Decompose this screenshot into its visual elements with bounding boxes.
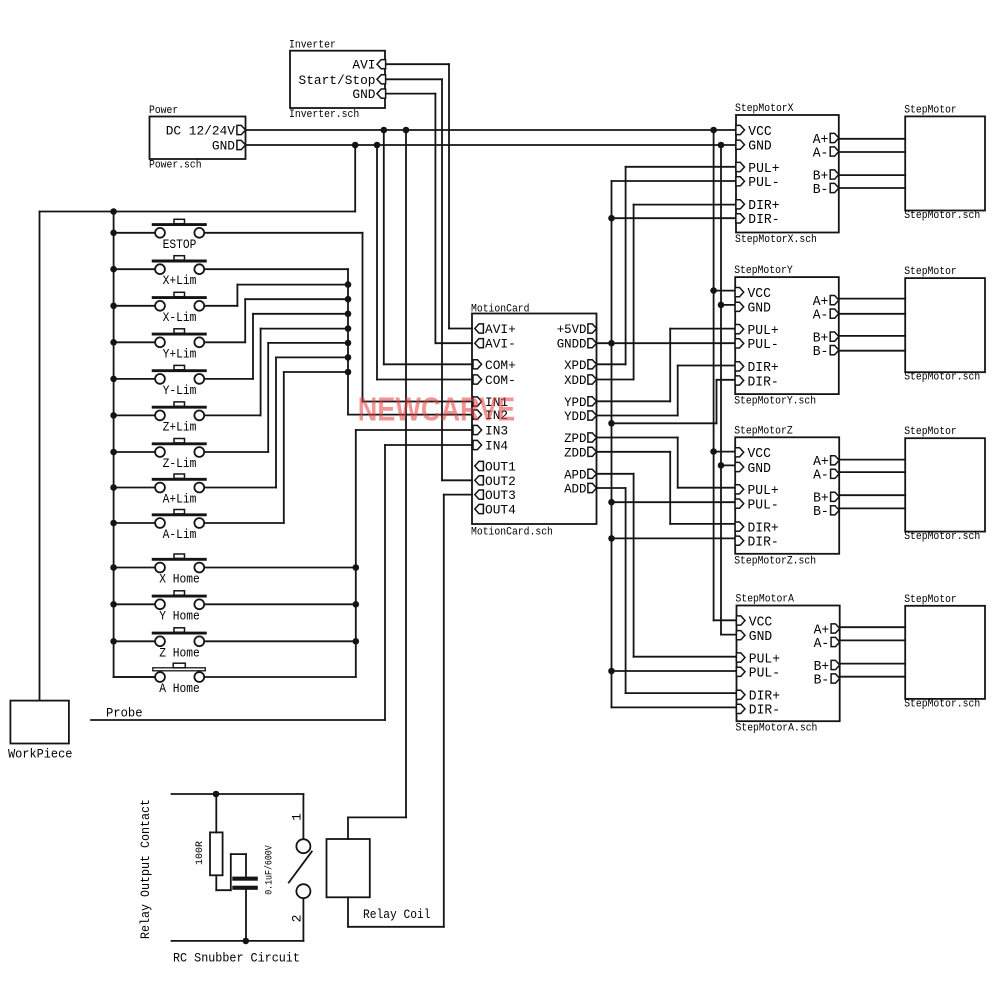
svg-text:GND: GND — [749, 630, 772, 645]
svg-text:OUT1: OUT1 — [485, 460, 516, 475]
svg-text:Z-Lim: Z-Lim — [163, 457, 197, 471]
svg-text:A-Lim: A-Lim — [163, 528, 197, 542]
svg-text:A-: A- — [813, 146, 829, 161]
svg-text:VCC: VCC — [748, 287, 771, 302]
svg-text:StepMotor.sch: StepMotor.sch — [904, 372, 980, 384]
svg-text:A+Lim: A+Lim — [163, 493, 197, 507]
svg-text:Relay Output Contact: Relay Output Contact — [139, 799, 153, 939]
svg-text:Y Home: Y Home — [159, 609, 200, 623]
svg-text:IN4: IN4 — [485, 439, 508, 454]
svg-text:100R: 100R — [195, 841, 206, 865]
svg-text:StepMotor: StepMotor — [904, 594, 957, 606]
svg-text:PUL-: PUL- — [748, 498, 779, 513]
svg-text:ADD: ADD — [564, 482, 587, 497]
svg-text:DIR+: DIR+ — [748, 361, 779, 376]
svg-text:StepMotor: StepMotor — [904, 266, 957, 278]
svg-text:VCC: VCC — [748, 125, 771, 140]
svg-text:PUL+: PUL+ — [748, 484, 779, 499]
svg-text:COM-: COM- — [485, 373, 516, 388]
svg-text:1: 1 — [290, 813, 305, 821]
svg-text:Y-Lim: Y-Lim — [163, 384, 197, 398]
svg-text:Relay Coil: Relay Coil — [363, 907, 431, 922]
svg-text:GND: GND — [748, 302, 771, 317]
svg-text:DIR+: DIR+ — [749, 690, 780, 705]
svg-text:ZDD: ZDD — [564, 445, 587, 460]
svg-text:GNDD: GNDD — [557, 337, 587, 352]
svg-text:OUT2: OUT2 — [485, 474, 516, 489]
svg-text:A-: A- — [814, 637, 830, 652]
svg-text:StepMotorY.sch: StepMotorY.sch — [734, 396, 816, 408]
svg-text:B-: B- — [813, 505, 829, 520]
svg-text:PUL+: PUL+ — [748, 324, 779, 339]
svg-text:YDD: YDD — [564, 409, 587, 424]
svg-text:ESTOP: ESTOP — [163, 238, 197, 252]
svg-text:Z+Lim: Z+Lim — [163, 420, 197, 434]
svg-text:X Home: X Home — [159, 573, 200, 587]
svg-text:XPD: XPD — [564, 358, 587, 373]
svg-text:StepMotor: StepMotor — [904, 104, 957, 116]
svg-text:RC Snubber Circuit: RC Snubber Circuit — [173, 951, 300, 966]
svg-text:2: 2 — [290, 915, 305, 923]
svg-text:StepMotor.sch: StepMotor.sch — [904, 210, 980, 222]
svg-text:GND: GND — [748, 140, 771, 155]
svg-text:Power.sch: Power.sch — [149, 160, 202, 172]
svg-text:DIR+: DIR+ — [748, 521, 779, 536]
svg-text:COM+: COM+ — [485, 358, 516, 373]
svg-text:Start/Stop: Start/Stop — [299, 73, 376, 88]
svg-text:StepMotorY: StepMotorY — [734, 265, 793, 277]
svg-text:VCC: VCC — [748, 447, 771, 462]
svg-text:A-: A- — [813, 469, 829, 484]
svg-text:DIR-: DIR- — [749, 704, 780, 719]
svg-text:StepMotorX: StepMotorX — [735, 103, 794, 115]
svg-text:Z Home: Z Home — [159, 646, 200, 660]
svg-text:StepMotorZ: StepMotorZ — [734, 425, 793, 437]
svg-text:GND: GND — [352, 87, 375, 102]
svg-text:ZPD: ZPD — [564, 431, 587, 446]
svg-text:WorkPiece: WorkPiece — [8, 747, 72, 762]
svg-text:GND: GND — [748, 462, 771, 477]
svg-text:StepMotor: StepMotor — [904, 426, 957, 438]
svg-text:PUL+: PUL+ — [749, 652, 780, 667]
svg-text:DC 12/24V: DC 12/24V — [166, 124, 235, 139]
svg-text:VCC: VCC — [749, 615, 772, 630]
svg-text:A Home: A Home — [159, 682, 200, 696]
svg-text:StepMotor.sch: StepMotor.sch — [904, 698, 980, 710]
svg-text:StepMotor.sch: StepMotor.sch — [904, 531, 980, 543]
svg-text:DIR-: DIR- — [748, 375, 779, 390]
svg-text:MotionCard.sch: MotionCard.sch — [471, 527, 553, 539]
svg-text:DIR-: DIR- — [748, 213, 779, 228]
svg-text:B-: B- — [813, 183, 829, 198]
svg-text:NEWCARVE: NEWCARVE — [358, 391, 516, 428]
svg-text:Power: Power — [149, 105, 178, 117]
svg-text:AVI-: AVI- — [485, 337, 516, 352]
svg-text:AVI+: AVI+ — [485, 322, 516, 337]
svg-text:Y+Lim: Y+Lim — [163, 347, 197, 361]
svg-text:DIR-: DIR- — [748, 536, 779, 551]
svg-text:StepMotorX.sch: StepMotorX.sch — [735, 234, 817, 246]
svg-text:PUL-: PUL- — [748, 338, 779, 353]
svg-text:StepMotorA.sch: StepMotorA.sch — [736, 723, 818, 735]
svg-text:YPD: YPD — [564, 395, 587, 410]
svg-text:X+Lim: X+Lim — [163, 274, 197, 288]
svg-text:Probe: Probe — [106, 706, 143, 721]
svg-text:0.1uF/600V: 0.1uF/600V — [264, 845, 276, 895]
svg-text:AVI: AVI — [352, 58, 375, 73]
svg-text:OUT3: OUT3 — [485, 488, 516, 503]
svg-text:+5VD: +5VD — [557, 322, 587, 337]
svg-text:StepMotorA: StepMotorA — [736, 594, 795, 606]
svg-text:MotionCard: MotionCard — [471, 304, 530, 316]
svg-text:PUL-: PUL- — [748, 176, 779, 191]
svg-text:A-: A- — [813, 308, 829, 323]
svg-text:X-Lim: X-Lim — [163, 311, 197, 325]
svg-text:Inverter: Inverter — [289, 40, 336, 52]
svg-text:Inverter.sch: Inverter.sch — [289, 109, 359, 121]
svg-text:GND: GND — [212, 139, 235, 154]
svg-text:StepMotorZ.sch: StepMotorZ.sch — [734, 555, 816, 567]
svg-text:B-: B- — [814, 673, 830, 688]
svg-text:B-: B- — [813, 345, 829, 360]
svg-text:APD: APD — [564, 467, 587, 482]
svg-text:DIR+: DIR+ — [748, 199, 779, 214]
svg-text:PUL-: PUL- — [749, 667, 780, 682]
svg-text:PUL+: PUL+ — [748, 162, 779, 177]
svg-text:OUT4: OUT4 — [485, 503, 516, 518]
svg-text:XDD: XDD — [564, 373, 587, 388]
